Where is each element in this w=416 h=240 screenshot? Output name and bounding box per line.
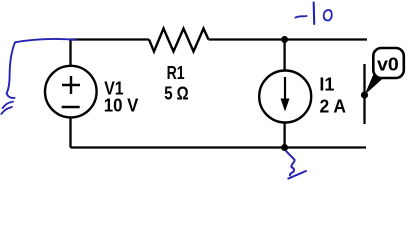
pen digit 1 of -10 [313, 3, 316, 25]
resistor R1 [149, 29, 209, 52]
wire top-right segment [209, 38, 368, 40]
wire I1 lower [283, 122, 285, 147]
svg-text:R1: R1 [167, 63, 185, 83]
pen minus sign of -10 [296, 16, 307, 18]
svg-text:v0: v0 [377, 55, 399, 75]
svg-text:10 V: 10 V [104, 95, 139, 115]
v0 callout tail [365, 70, 385, 96]
pen squiggle bottom [286, 151, 294, 175]
pen slash bottom [288, 171, 306, 179]
node v0 dot [361, 91, 368, 98]
pen hatch marks [1, 102, 13, 114]
current source I1 circle [259, 71, 311, 123]
V1 plus sign [62, 76, 80, 94]
voltage source V1 circle [45, 66, 97, 118]
junction top node [281, 36, 288, 43]
svg-text:5 Ω: 5 Ω [164, 83, 189, 103]
wire left branch lower [69, 117, 71, 147]
wire bottom [71, 146, 367, 148]
v0 callout box [373, 48, 404, 78]
I1 arrow [284, 77, 286, 101]
V1 minus sign [62, 106, 80, 109]
wire left branch upper [69, 40, 71, 67]
wire I1 upper [283, 40, 285, 72]
junction bottom node [281, 144, 288, 151]
wire top-left segment [71, 38, 150, 40]
pen digit 0 of -10 [324, 10, 332, 20]
svg-text:2 A: 2 A [320, 96, 347, 116]
svg-text:I1: I1 [319, 75, 334, 95]
probe wire v0 [363, 64, 365, 124]
pen stroke left trace [7, 39, 76, 98]
